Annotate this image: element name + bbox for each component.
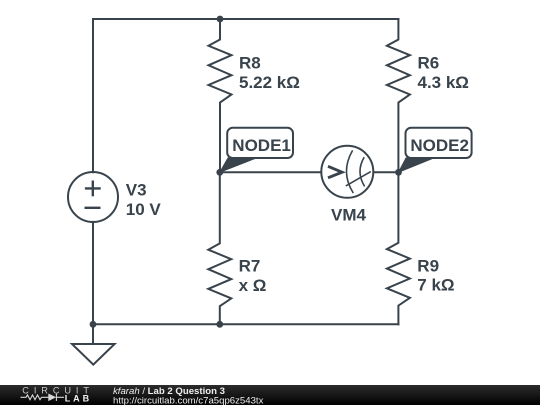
svg-text:LAB: LAB [65, 393, 93, 403]
voltmeter VM4 chevron [328, 166, 342, 178]
svg-text:4.3 kΩ: 4.3 kΩ [418, 73, 469, 92]
wire left lower vertical [92, 222, 94, 324]
voltmeter VM4 meter arc right [360, 157, 365, 186]
wire top horizontal [93, 18, 398, 20]
svg-text:NODE1: NODE1 [232, 136, 291, 155]
svg-text:V3: V3 [126, 181, 147, 200]
CircuitLab logo diode triangle [48, 394, 56, 402]
resistor R6 [387, 19, 410, 172]
node NODE1 flag tail [220, 158, 256, 172]
node NODE2 flag box [406, 128, 472, 158]
junction dot ground [90, 321, 97, 328]
ground stem wire [92, 324, 94, 344]
svg-text:VM4: VM4 [331, 206, 367, 225]
svg-text:7 kΩ: 7 kΩ [417, 276, 454, 295]
CircuitLab logo schematic squiggle resistor [21, 394, 65, 401]
voltmeter VM4 circle [321, 146, 373, 198]
svg-text:5.22 kΩ: 5.22 kΩ [239, 73, 300, 92]
resistor R9 [387, 172, 410, 324]
voltmeter VM4 meter arc left [346, 150, 353, 193]
svg-text:x Ω: x Ω [239, 276, 267, 295]
svg-text:NODE2: NODE2 [410, 136, 469, 155]
node NODE2 flag tail [399, 158, 434, 172]
svg-text:http://circuitlab.com/c7a5qp6z: http://circuitlab.com/c7a5qp6z543tx [113, 395, 264, 405]
wire bottom horizontal [93, 323, 398, 325]
voltage source V3 plus sign [85, 181, 101, 197]
svg-text:R7: R7 [239, 257, 261, 276]
ground symbol triangle [72, 344, 115, 365]
wire left upper vertical [92, 19, 94, 172]
wire NODE1 to voltmeter [220, 171, 322, 173]
voltmeter VM4 needle [346, 172, 371, 186]
voltage source V3 circle [68, 172, 118, 222]
junction dot bottom (R7/bottom wire) [216, 321, 223, 328]
junction dot NODE2 [395, 169, 402, 176]
junction dot NODE1 [216, 169, 223, 176]
svg-text:R9: R9 [417, 257, 439, 276]
resistor R8 [209, 19, 232, 172]
junction dot top (R8/top wire) [217, 16, 224, 23]
node NODE1 flag box [227, 128, 293, 158]
resistor R7 [208, 172, 231, 324]
svg-text:10 V: 10 V [126, 200, 162, 219]
svg-text:R6: R6 [418, 54, 440, 73]
wire voltmeter to NODE2 [373, 171, 398, 173]
voltage source V3 minus sign [85, 207, 101, 209]
svg-text:R8: R8 [239, 54, 261, 73]
